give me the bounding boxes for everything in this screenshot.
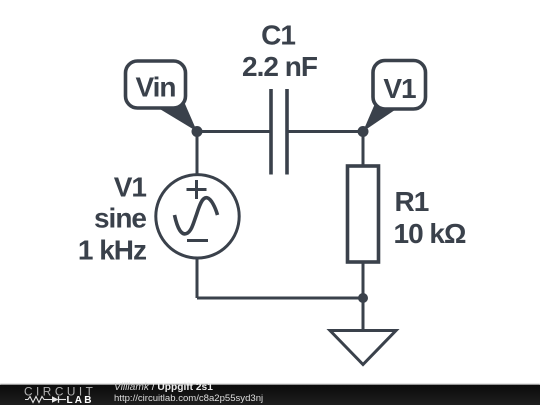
wire node C to ground (362, 298, 365, 330)
capacitor C1 (271, 89, 287, 175)
svg-text:LAB: LAB (67, 395, 94, 405)
wire node B down to R1 top (362, 132, 365, 167)
resistor R1 (348, 166, 379, 262)
label C1 value (242, 20, 318, 83)
svg-text:1 kHz: 1 kHz (78, 235, 146, 266)
node label flag Vin (126, 61, 198, 132)
svg-text:10 kΩ: 10 kΩ (394, 218, 466, 249)
wire node A down to V1 source top (196, 132, 199, 175)
svg-text:sine: sine (94, 203, 146, 234)
ground (330, 331, 396, 365)
wire bottom horizontal (197, 297, 363, 300)
node B dot (358, 126, 369, 137)
circuitlab logo (0, 384, 110, 405)
label V1 value (78, 172, 147, 266)
voltage source V1 (156, 175, 239, 258)
wire node A to capacitor left (197, 130, 270, 133)
label R1 value (394, 186, 466, 249)
node C dot (358, 293, 368, 303)
svg-text:C1: C1 (261, 20, 295, 51)
svg-text:R1: R1 (395, 186, 429, 217)
wire V1 source bottom down (196, 259, 199, 299)
svg-text:2.2 nF: 2.2 nF (242, 51, 318, 82)
svg-text:V1: V1 (114, 172, 147, 203)
wire capacitor right to node B (289, 130, 364, 133)
node A dot (192, 126, 203, 137)
svg-text:Vin: Vin (135, 72, 175, 103)
wire R1 bottom to node C (362, 262, 365, 298)
svg-text:V1: V1 (383, 73, 416, 104)
node label flag V1 (363, 61, 426, 132)
